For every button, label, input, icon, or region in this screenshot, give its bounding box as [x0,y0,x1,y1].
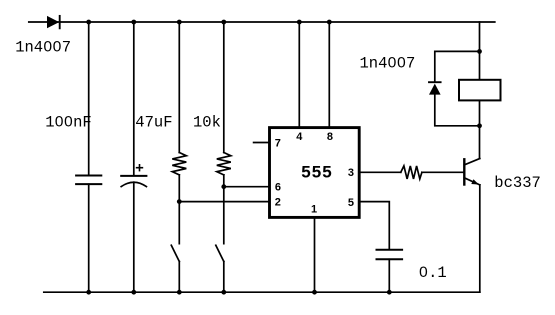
wire pin1 to ground rail [314,219,316,292]
svg-text:555: 555 [301,162,332,181]
wire pin4 to rail [298,22,300,126]
wire pin2 to R1 node [179,201,269,203]
svg-text:6: 6 [275,181,281,193]
wire pin3 output [361,171,401,173]
zero glyph counters cleanup (white) [46,45,425,274]
svg-text:1n4007: 1n4007 [15,39,71,57]
wire top +V rail [29,21,495,23]
transistor Q1 bc337 [464,159,480,185]
diode D2 flyback 1n4007 [429,82,441,94]
svg-text:7: 7 [275,138,281,150]
switch S2 [216,245,224,292]
node top rail junction A [86,20,91,25]
wire flyback branch top [435,51,480,82]
wire pin8 to rail [328,22,330,126]
svg-text:bc337: bc337 [494,174,541,192]
wire bottom ground rail [44,291,480,293]
pin 7 stub [254,142,269,144]
svg-text:5: 5 [348,197,354,209]
capacitor C2 47uF electrolytic [121,176,146,187]
node top rail junction E (pin4) [297,20,302,25]
node ground junction B [131,290,136,295]
wire C2 branch vertical [133,22,135,292]
wire relay supply vertical [479,22,481,159]
svg-text:3: 3 [348,167,354,179]
svg-text:10k: 10k [193,113,221,131]
IC U1 555 timer body [270,128,360,218]
node ground junction D [221,290,226,295]
wire pin6 to R2 node [224,186,270,188]
wire R3 to Q1 base [422,171,463,173]
node ground junction E (pin1) [312,290,317,295]
diode D1 (series 1n4007) [47,16,60,28]
resistor R3 base resistor [401,166,422,179]
node ground junction F (C3) [387,290,392,295]
node R2 pin6 junction [221,184,226,189]
svg-text:2: 2 [275,197,281,209]
wire Q1 emitter to ground rail [479,185,481,292]
node top rail junction D [221,20,226,25]
wire C3 to ground rail [388,259,390,292]
svg-text:1n4007: 1n4007 [360,54,416,72]
svg-text:47uF: 47uF [135,113,172,131]
resistor R2 10k (right vertical) [217,22,231,244]
switch S1 [171,245,179,292]
node top rail junction F (pin8) [327,20,332,25]
resistor R1 (left vertical) [172,22,186,244]
node relay bottom junction [477,123,482,128]
node top rail junction B [131,20,136,25]
relay K1 coil box [459,80,501,101]
node ground junction C [177,290,182,295]
wire flyback branch bottom [435,95,480,126]
node top rail junction C [177,20,182,25]
node ground junction A [86,290,91,295]
svg-text:4: 4 [296,131,303,143]
node R1 pin2 junction [177,199,182,204]
capacitor C3 0.1 plates [377,250,403,260]
node relay top junction [477,49,482,54]
svg-text:8: 8 [327,131,333,143]
wire pin5 to C3 [361,202,390,250]
svg-text:1: 1 [311,203,317,215]
wire C1 branch vertical [88,22,90,292]
capacitor C1 100nF plates [76,176,101,185]
C2 polarity plus sign [137,165,143,171]
